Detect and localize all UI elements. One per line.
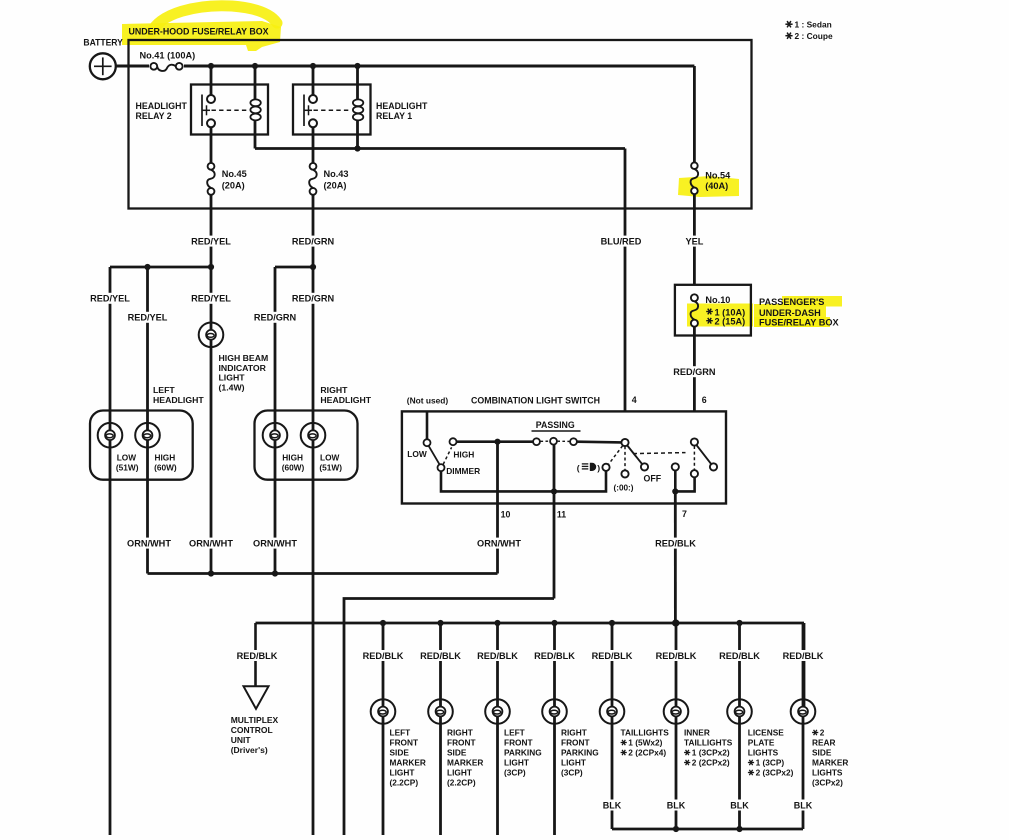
svg-text:(: (	[577, 463, 580, 473]
svg-text:(Driver's): (Driver's)	[231, 745, 268, 755]
svg-text:FRONT: FRONT	[390, 738, 419, 748]
svg-text:RIGHT: RIGHT	[320, 385, 348, 395]
svg-text:MARKER: MARKER	[390, 758, 426, 768]
svg-text:(:00:): (:00:)	[614, 484, 634, 493]
svg-text:RED/BLK: RED/BLK	[719, 651, 760, 661]
svg-text:LOW: LOW	[407, 449, 427, 459]
svg-text:RED/BLK: RED/BLK	[420, 651, 461, 661]
svg-text:(2.2CP): (2.2CP)	[447, 778, 476, 788]
svg-text:10: 10	[501, 510, 511, 520]
svg-text:BLK: BLK	[603, 800, 622, 810]
svg-text:SIDE: SIDE	[812, 748, 832, 758]
svg-text:No.41 (100A): No.41 (100A)	[140, 51, 196, 61]
svg-text:HIGH: HIGH	[282, 453, 303, 463]
svg-text:LOW: LOW	[117, 453, 137, 463]
svg-text:PARKING: PARKING	[561, 748, 599, 758]
svg-text:UNDER-HOOD FUSE/RELAY BOX: UNDER-HOOD FUSE/RELAY BOX	[129, 27, 270, 37]
svg-text:(1.4W): (1.4W)	[219, 382, 245, 392]
svg-text:ORN/WHT: ORN/WHT	[477, 538, 521, 548]
svg-text:(60W): (60W)	[154, 463, 177, 473]
svg-text:2 (2CPx2): 2 (2CPx2)	[692, 758, 730, 768]
svg-text:RED/GRN: RED/GRN	[673, 367, 716, 377]
svg-text:(2.2CP): (2.2CP)	[390, 778, 419, 788]
svg-text:REAR: REAR	[812, 738, 836, 748]
svg-text:6: 6	[702, 395, 707, 405]
svg-text:No.45: No.45	[222, 169, 247, 179]
svg-text:RED/YEL: RED/YEL	[191, 294, 231, 304]
svg-text:RED/BLK: RED/BLK	[477, 651, 518, 661]
svg-text:(51W): (51W)	[319, 463, 342, 473]
svg-text:RED/BLK: RED/BLK	[655, 538, 696, 548]
svg-text:BATTERY: BATTERY	[83, 37, 123, 47]
svg-text:SIDE: SIDE	[447, 748, 467, 758]
svg-text:TAILLIGHTS: TAILLIGHTS	[684, 738, 733, 748]
svg-text:No.43: No.43	[324, 169, 349, 179]
svg-text:FRONT: FRONT	[561, 738, 590, 748]
svg-text:FRONT: FRONT	[447, 738, 476, 748]
svg-text:LEFT: LEFT	[153, 385, 175, 395]
svg-text:SIDE: SIDE	[390, 748, 410, 758]
svg-text:BLK: BLK	[730, 800, 749, 810]
svg-text:PLATE: PLATE	[748, 738, 775, 748]
svg-text:CONTROL: CONTROL	[231, 725, 273, 735]
svg-text:LICENSE: LICENSE	[748, 728, 784, 738]
svg-text:LIGHT: LIGHT	[390, 768, 415, 778]
svg-text:MARKER: MARKER	[812, 758, 848, 768]
svg-text:INNER: INNER	[684, 728, 710, 738]
svg-text:No.54: No.54	[705, 170, 731, 180]
svg-text:(51W): (51W)	[116, 463, 139, 473]
svg-text:HEADLIGHT: HEADLIGHT	[136, 101, 188, 111]
svg-text:RED/BLK: RED/BLK	[656, 651, 697, 661]
svg-text:PASSING: PASSING	[536, 420, 575, 430]
svg-text:BLU/RED: BLU/RED	[601, 236, 642, 246]
svg-text:INDICATOR: INDICATOR	[219, 363, 267, 373]
svg-text:(3CP): (3CP)	[504, 768, 526, 778]
svg-text:RED/BLK: RED/BLK	[534, 651, 575, 661]
svg-text:1 : Sedan: 1 : Sedan	[795, 19, 832, 29]
svg-text:(3CPx2): (3CPx2)	[812, 778, 843, 788]
svg-text:LIGHT: LIGHT	[447, 768, 472, 778]
svg-text:RELAY 2: RELAY 2	[136, 111, 172, 121]
svg-text:4: 4	[632, 395, 637, 405]
svg-text:No.10: No.10	[705, 295, 730, 305]
svg-text:LIGHT: LIGHT	[504, 758, 529, 768]
svg-text:ORN/WHT: ORN/WHT	[189, 538, 233, 548]
svg-text:(60W): (60W)	[282, 463, 305, 473]
svg-text:HIGH: HIGH	[453, 450, 474, 460]
svg-text:7: 7	[682, 509, 687, 519]
svg-text:2 (2CPx4): 2 (2CPx4)	[628, 748, 666, 758]
svg-text:RED/YEL: RED/YEL	[90, 294, 130, 304]
svg-text:11: 11	[557, 510, 566, 520]
svg-text:RED/BLK: RED/BLK	[783, 651, 824, 661]
svg-text:HIGH BEAM: HIGH BEAM	[219, 353, 269, 363]
svg-text:(Not used): (Not used)	[407, 395, 449, 405]
svg-text:UNDER-DASH: UNDER-DASH	[759, 308, 821, 318]
svg-text:PARKING: PARKING	[504, 748, 542, 758]
svg-text:2: 2	[820, 728, 825, 738]
svg-text:HEADLIGHT: HEADLIGHT	[376, 101, 428, 111]
svg-text:OFF: OFF	[644, 473, 662, 483]
svg-text:2 (3CPx2): 2 (3CPx2)	[756, 768, 794, 778]
svg-text:(20A): (20A)	[324, 181, 347, 191]
svg-text:2 (15A): 2 (15A)	[715, 317, 746, 327]
svg-text:): )	[597, 463, 600, 473]
svg-text:ORN/WHT: ORN/WHT	[253, 538, 297, 548]
svg-text:1 (3CPx2): 1 (3CPx2)	[692, 748, 730, 758]
svg-text:1 (5Wx2): 1 (5Wx2)	[628, 738, 662, 748]
svg-text:RED/YEL: RED/YEL	[191, 236, 231, 246]
svg-text:TAILLIGHTS: TAILLIGHTS	[621, 728, 670, 738]
svg-text:ORN/WHT: ORN/WHT	[127, 538, 171, 548]
svg-text:(20A): (20A)	[222, 181, 245, 191]
svg-text:BLK: BLK	[794, 800, 813, 810]
svg-text:RED/GRN: RED/GRN	[254, 313, 297, 323]
svg-text:PASSENGER'S: PASSENGER'S	[759, 297, 824, 307]
svg-text:DIMMER: DIMMER	[446, 466, 480, 476]
svg-text:MARKER: MARKER	[447, 758, 483, 768]
svg-text:MULTIPLEX: MULTIPLEX	[231, 715, 279, 725]
svg-text:RIGHT: RIGHT	[561, 728, 587, 738]
svg-text:RED/BLK: RED/BLK	[363, 651, 404, 661]
svg-text:LIGHTS: LIGHTS	[812, 768, 843, 778]
svg-text:RELAY 1: RELAY 1	[376, 111, 412, 121]
svg-text:LIGHTS: LIGHTS	[748, 748, 779, 758]
svg-text:RED/GRN: RED/GRN	[292, 294, 335, 304]
svg-text:2 : Coupe: 2 : Coupe	[795, 31, 833, 41]
svg-text:LEFT: LEFT	[390, 728, 411, 738]
svg-text:RED/GRN: RED/GRN	[292, 236, 335, 246]
svg-text:LIGHT: LIGHT	[561, 758, 586, 768]
svg-text:FRONT: FRONT	[504, 738, 533, 748]
svg-text:YEL: YEL	[685, 236, 703, 246]
svg-text:BLK: BLK	[667, 800, 686, 810]
svg-text:RED/YEL: RED/YEL	[128, 313, 168, 323]
svg-text:HIGH: HIGH	[155, 453, 176, 463]
svg-text:RED/BLK: RED/BLK	[237, 651, 278, 661]
svg-text:LEFT: LEFT	[504, 728, 525, 738]
svg-text:COMBINATION LIGHT SWITCH: COMBINATION LIGHT SWITCH	[471, 395, 600, 405]
svg-text:LOW: LOW	[320, 453, 340, 463]
svg-text:LIGHT: LIGHT	[219, 373, 246, 383]
svg-text:UNIT: UNIT	[231, 735, 252, 745]
svg-text:HEADLIGHT: HEADLIGHT	[153, 395, 204, 405]
svg-text:RIGHT: RIGHT	[447, 728, 473, 738]
svg-text:(3CP): (3CP)	[561, 768, 583, 778]
svg-text:RED/BLK: RED/BLK	[592, 651, 633, 661]
svg-text:1 (3CP): 1 (3CP)	[756, 758, 785, 768]
svg-text:(40A): (40A)	[705, 181, 728, 191]
svg-text:FUSE/RELAY BOX: FUSE/RELAY BOX	[759, 318, 840, 328]
svg-text:HEADLIGHT: HEADLIGHT	[320, 395, 371, 405]
